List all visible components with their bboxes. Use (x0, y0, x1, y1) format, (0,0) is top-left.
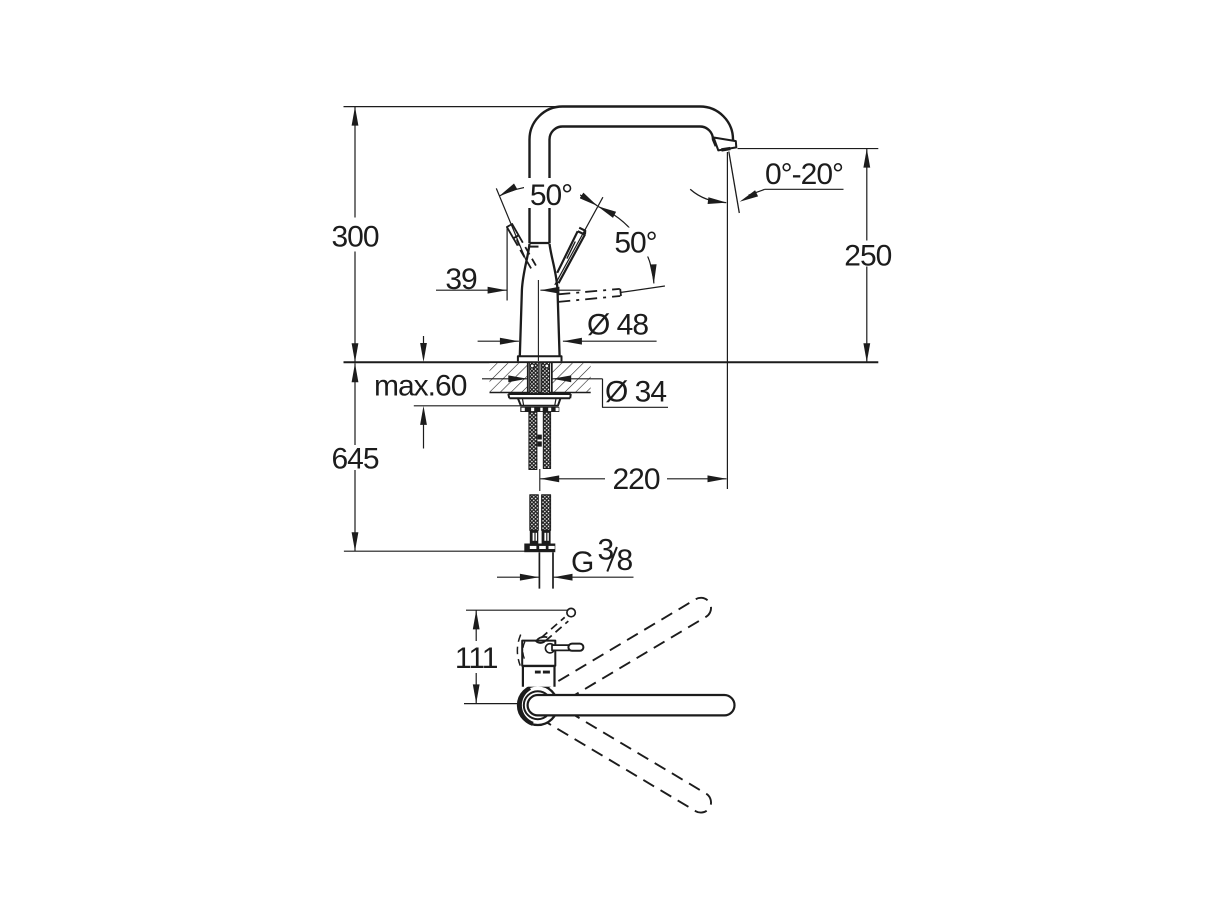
counter bottom line (490, 392, 591, 394)
body center line (537, 280, 539, 361)
label 645 (330, 445, 380, 470)
dim 645 line (354, 363, 356, 551)
svg-text:max.60: max.60 (374, 370, 467, 403)
dim G38 (497, 576, 539, 578)
body cone right edge (550, 244, 560, 356)
stream angle line (729, 152, 740, 214)
label 111 (452, 641, 500, 673)
0-20deg leader arrow (740, 190, 759, 202)
plan phantom lever knob (567, 608, 575, 616)
solid lever (557, 228, 585, 284)
svg-text:Ø 34: Ø 34 (605, 376, 666, 409)
label 50deg right (608, 228, 665, 257)
lever horizontal phantom position dash-dot (558, 289, 620, 302)
svg-text:G: G (571, 546, 593, 579)
outlet vertical line (726, 152, 728, 489)
dim d48 (478, 340, 519, 342)
plan lever base arc (536, 637, 547, 641)
mounting nut (518, 398, 561, 406)
dim 111 (475, 610, 477, 703)
plan lever bar (552, 645, 570, 650)
lever angle extension line left (496, 188, 527, 263)
lever angle extension line right (555, 197, 603, 285)
dim 300 line (354, 107, 356, 363)
svg-text:0°-20°: 0°-20° (765, 158, 843, 191)
dim max60 upper arrow (423, 336, 425, 345)
dim d34 (482, 378, 527, 380)
lever phantom extension line (621, 286, 665, 292)
washer (508, 394, 571, 398)
threaded tail (539, 552, 553, 588)
outlet cap (714, 138, 737, 151)
base circle shading arc (520, 688, 533, 724)
supply hose upper right (543, 412, 550, 469)
shank braid left (530, 362, 539, 394)
svg-text:Ø 48: Ø 48 (587, 309, 648, 342)
dim 39 extension line (506, 228, 508, 301)
svg-text:50°: 50° (530, 179, 572, 212)
G3/8 union nut (524, 544, 555, 553)
pull-out hose joint (537, 435, 541, 440)
label 250 (843, 241, 893, 267)
hose gap center line (539, 469, 541, 491)
countertop line (344, 361, 879, 363)
phantom lever tip (507, 224, 519, 238)
50deg arc right arrowheads (598, 206, 617, 218)
max60 lower reference line (414, 405, 520, 407)
plan top extension line (466, 609, 569, 611)
spout outer contour (530, 107, 736, 244)
plan body column (523, 666, 555, 687)
svg-text:220: 220 (612, 463, 659, 496)
svg-text:8: 8 (617, 544, 633, 577)
dim 220 (540, 478, 726, 480)
aerator (721, 149, 730, 150)
counter hatch right (552, 363, 591, 392)
plan phantom lever dashed (541, 617, 568, 640)
shank center lines (539, 362, 541, 394)
label 300 (331, 218, 380, 252)
label 220 (605, 466, 667, 491)
plan swing arc dashed small (523, 642, 525, 659)
plan body column dashes (535, 671, 541, 674)
0-20deg swing arc (690, 189, 726, 202)
joint step (530, 246, 539, 248)
svg-text:39: 39 (445, 263, 477, 296)
0-20deg leader line (765, 188, 844, 190)
supply hose lower right (542, 495, 551, 531)
plan lever ball (545, 644, 554, 653)
solid lever slot (567, 242, 575, 259)
dim 39 (436, 289, 507, 291)
svg-text:645: 645 (331, 442, 378, 475)
lever phantom tip cap (619, 289, 622, 296)
spout inner contour (550, 127, 716, 244)
dim 250 (866, 149, 868, 363)
plan body upper (522, 641, 555, 666)
plan body top notch (536, 641, 546, 643)
plan bottom extension line (464, 703, 518, 705)
counter hatch left (490, 363, 528, 392)
plan swing arc dashed (517, 635, 520, 666)
bottom extension line (344, 550, 527, 552)
50deg arc right (598, 206, 654, 283)
spout plan dashed down position (533, 696, 715, 816)
joint line (530, 242, 550, 244)
svg-text:50°: 50° (614, 227, 656, 260)
shank top seals (530, 364, 534, 368)
shank outer lines (528, 362, 552, 394)
body cone left edge (520, 244, 530, 356)
svg-text:250: 250 (844, 239, 891, 272)
dim max60 lower arrow (423, 423, 425, 449)
plan body shoulder line (522, 664, 555, 667)
inner circle (524, 691, 552, 719)
label 50deg left (524, 178, 580, 208)
hose collar band (520, 407, 559, 412)
spout plan dashed up position (533, 594, 715, 714)
50deg arc left (499, 186, 597, 206)
plan lever knob (568, 644, 583, 651)
hose end fittings (530, 530, 539, 543)
top extension line (344, 106, 560, 108)
outlet level extension line (738, 148, 879, 150)
50deg arc left arrowheads (499, 184, 517, 197)
phantom lever dashed edges (513, 235, 536, 268)
spout plan solid (528, 695, 735, 715)
base circle (518, 685, 558, 725)
supply hose upper left (529, 412, 537, 470)
svg-text:300: 300 (331, 221, 378, 254)
svg-text:111: 111 (455, 642, 498, 675)
d34 label shelf (603, 379, 669, 408)
supply hose lower left (530, 495, 539, 531)
phantom lever slot dashed (517, 240, 525, 257)
shank braid right (541, 362, 549, 394)
base ring (518, 356, 562, 361)
